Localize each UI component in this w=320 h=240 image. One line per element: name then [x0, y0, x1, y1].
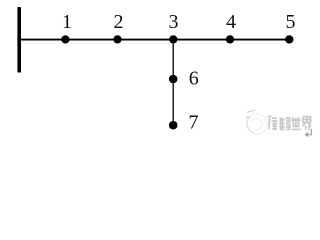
svg-text:4: 4 [226, 11, 236, 33]
svg-text:6: 6 [189, 68, 199, 90]
wire: main feeder from bus to node 5 [19, 39, 289, 41]
世 [291, 117, 301, 129]
svg-text:7: 7 [189, 112, 199, 134]
node 3 [169, 35, 177, 43]
界 [303, 117, 311, 131]
node 6 [169, 75, 178, 84]
svg-text:3: 3 [169, 11, 179, 33]
watermark text 储能世界 (drawn strokes) [268, 117, 311, 131]
svg-text:1: 1 [62, 11, 72, 33]
watermark return mark [304, 129, 311, 138]
node 5 [285, 35, 293, 43]
wire: branch from node 3 down to node 7 [172, 40, 174, 126]
watermark logo circle [246, 110, 268, 134]
svg-text:2: 2 [114, 11, 124, 33]
node 1 [61, 35, 69, 43]
node 4 [226, 35, 234, 43]
svg-text:5: 5 [286, 11, 296, 33]
能 [280, 118, 289, 130]
储 [268, 117, 278, 130]
node 2 [113, 35, 121, 43]
bus bar (source) [17, 7, 21, 73]
node 7 [169, 121, 178, 130]
